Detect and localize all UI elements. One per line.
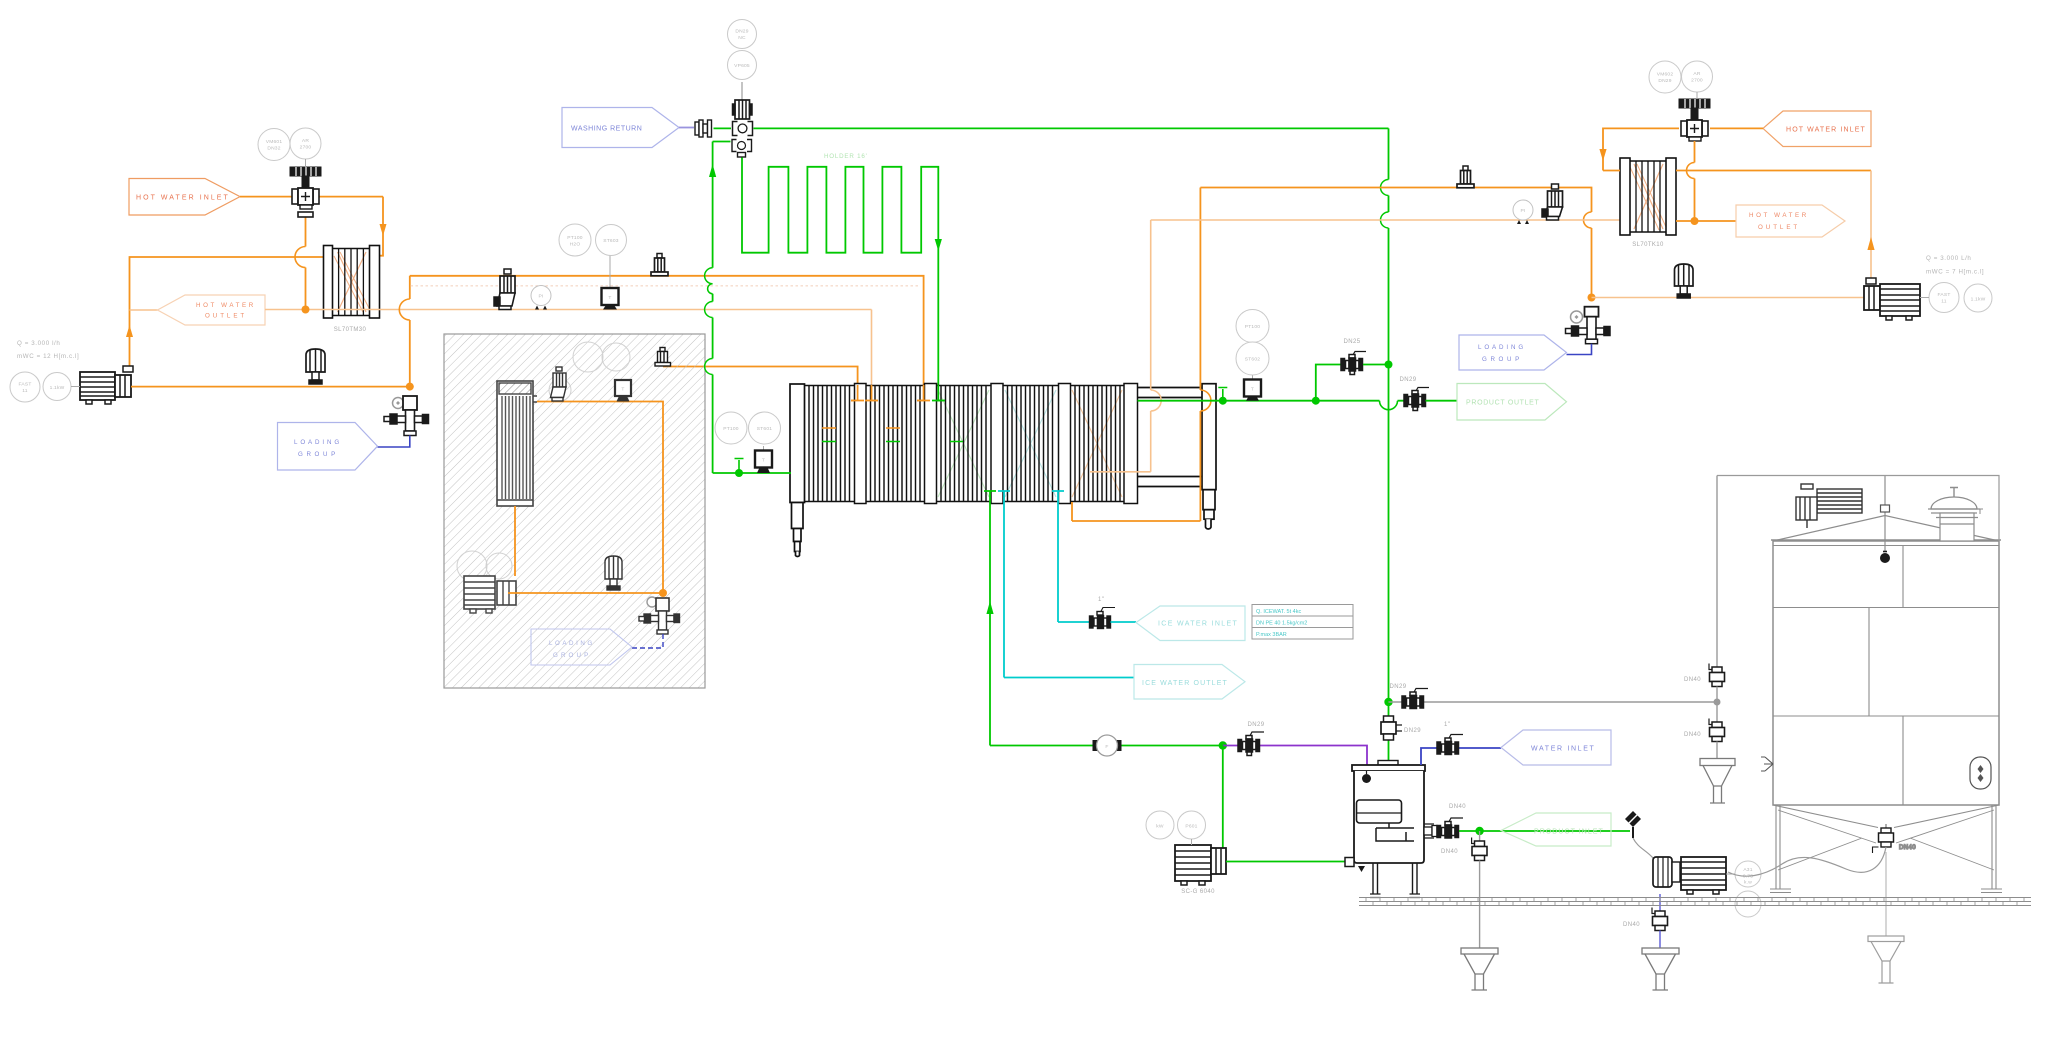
gray overflow line to tank funnels bbox=[1389, 701, 1718, 703]
pale X marks section3 bbox=[938, 390, 989, 497]
wire green washing to cross bbox=[714, 127, 732, 129]
plate pack section2 bbox=[866, 386, 925, 502]
svg-text:T: T bbox=[1251, 387, 1254, 393]
valve loading group in box bbox=[639, 597, 680, 634]
svg-text:PI: PI bbox=[1520, 208, 1525, 214]
T transmitter ST602 bbox=[1244, 375, 1261, 401]
loading circuit header y=366.5 from box bbox=[663, 367, 864, 401]
separator frames bbox=[855, 384, 1138, 504]
wire product down and to flowmeter bbox=[990, 745, 1094, 747]
inline fitting washing bbox=[695, 120, 712, 137]
tank legs bbox=[1373, 863, 1417, 894]
svg-text:HOT WATER: HOT WATER bbox=[1749, 212, 1807, 219]
ice water circuit bbox=[1004, 597, 1353, 699]
svg-text:VP605: VP605 bbox=[734, 63, 750, 69]
valve DN29 purple bbox=[1238, 732, 1264, 756]
flag PRODUCT INLET bbox=[1501, 813, 1611, 846]
svg-text:HOLDER 16': HOLDER 16' bbox=[824, 153, 868, 160]
svg-text:DN29: DN29 bbox=[1400, 377, 1417, 383]
valve VP605 vertical bbox=[733, 82, 753, 119]
svg-text:DN25: DN25 bbox=[1344, 339, 1361, 345]
wire HX1 top-left to left riser bbox=[130, 257, 324, 372]
junction dot product outlet bbox=[1219, 397, 1227, 405]
arrow down holder outlet bbox=[935, 239, 942, 251]
green washing header to right bbox=[754, 127, 1389, 129]
flag HOT WATER OUTLET right bbox=[1736, 205, 1845, 237]
junction dot tank riser bbox=[1384, 698, 1392, 706]
wire valve VM602 branch left and down to HX2 bbox=[1603, 128, 1679, 170]
wire left riser tee to outlet flag bbox=[130, 309, 158, 311]
valve DN25 bbox=[1341, 352, 1366, 375]
pale dotted equalising line y=285.8 bbox=[411, 285, 921, 287]
junction dot right loading valve bbox=[1588, 294, 1596, 302]
svg-text:H2O: H2O bbox=[570, 242, 581, 248]
temperature transmitter T on pale return bbox=[602, 250, 619, 310]
junction dot product inlet bbox=[1475, 827, 1483, 835]
svg-text:PRODUCT OUTLET: PRODUCT OUTLET bbox=[1466, 400, 1540, 407]
instrument circle DN29 NC bbox=[728, 20, 757, 80]
wire purple to balance tank bbox=[1223, 746, 1367, 766]
instrument circle FAST 11 right bbox=[1920, 283, 1992, 313]
plate pack section4 bbox=[1003, 386, 1059, 502]
svg-text:T: T bbox=[762, 458, 765, 464]
svg-text:1.1kW: 1.1kW bbox=[50, 385, 65, 391]
flag PRODUCT OUTLET bbox=[1457, 384, 1567, 421]
svg-text:AR: AR bbox=[302, 138, 309, 144]
wire valve VM601 down to outlet header bbox=[305, 217, 307, 310]
svg-text:PT100: PT100 bbox=[567, 235, 582, 241]
flag ICE WATER INLET bbox=[1136, 606, 1245, 641]
internal connector ticks orange bbox=[822, 427, 900, 429]
flowmeter F bbox=[1093, 735, 1122, 756]
instrument circle A31 bbox=[1726, 861, 1761, 887]
svg-text:11: 11 bbox=[22, 388, 28, 394]
end plate left bbox=[790, 384, 805, 557]
angle seat valve right bbox=[1542, 184, 1563, 220]
tank roof bbox=[1773, 516, 1999, 542]
svg-text:FAST: FAST bbox=[1937, 292, 1950, 298]
flag LOADING GROUP left bbox=[278, 423, 378, 471]
arrow down into HX1 bbox=[380, 224, 387, 236]
svg-text:DN29: DN29 bbox=[1390, 684, 1407, 690]
safety top-hat vent on supply header bbox=[651, 254, 668, 276]
tank legs bbox=[1776, 805, 1996, 889]
wire DN25 bypass up bbox=[1316, 365, 1341, 401]
pale return riser x1150.7 bbox=[1090, 220, 1151, 472]
plate pack section5 bbox=[1071, 386, 1125, 502]
svg-text:LOADING: LOADING bbox=[549, 640, 593, 647]
pale X marks section4 bbox=[1005, 390, 1056, 497]
funnel F1 bbox=[1461, 948, 1498, 990]
pale return header y=309.5 bbox=[265, 309, 872, 311]
instrument circles PT100 / ST602 stacked bbox=[1236, 310, 1269, 376]
svg-text:DN29: DN29 bbox=[735, 29, 748, 35]
wire dot to HX2 bottom port bbox=[1676, 220, 1736, 222]
storage tank bbox=[1717, 476, 2002, 984]
junction dot on main riser bbox=[1385, 361, 1393, 369]
arrow up cold product bbox=[986, 601, 993, 614]
pale return header y=220 bbox=[1151, 219, 1620, 221]
svg-text:DN29: DN29 bbox=[1658, 78, 1671, 84]
svg-text:T: T bbox=[608, 295, 611, 301]
ghost circles at box pump bbox=[457, 551, 487, 581]
carrying bars bottom bbox=[1138, 477, 1203, 487]
name plate oval bbox=[1970, 757, 1991, 789]
pump A31 bbox=[1653, 857, 1726, 894]
svg-text:HOT WATER INLET: HOT WATER INLET bbox=[1786, 127, 1866, 134]
left hot water circuit bbox=[10, 128, 872, 470]
instrument circle VM602 DN29 bbox=[1649, 61, 1713, 99]
junction dot valve drop on pale header bbox=[302, 306, 310, 314]
jump arc right riser over pale line bbox=[1584, 212, 1592, 228]
wire to product outlet flag bbox=[1426, 400, 1458, 402]
right heat exchanger circuit bbox=[1599, 61, 1992, 320]
svg-text:PT100: PT100 bbox=[723, 426, 738, 432]
valve DN40 drain center bbox=[1652, 908, 1668, 931]
valve DN29 product outlet bbox=[1404, 388, 1429, 411]
junction dot DN25 branch bbox=[1312, 397, 1320, 405]
main plate heat exchanger bbox=[713, 188, 1316, 746]
pump in loading box bbox=[464, 576, 516, 613]
instrument circle kW bbox=[1146, 811, 1206, 845]
svg-text:VM602: VM602 bbox=[1657, 72, 1674, 78]
svg-text:ICE WATER OUTLET: ICE WATER OUTLET bbox=[1142, 680, 1228, 687]
wire product riser to lower tee bbox=[713, 141, 731, 143]
check valve diamond bbox=[1625, 811, 1641, 827]
heat exchanger SL70TK10 bbox=[1620, 158, 1676, 235]
instrument circle spare bbox=[1735, 891, 1761, 917]
svg-text:PT100: PT100 bbox=[1245, 324, 1260, 330]
instrument circles PT100 H2O / ST603 bbox=[559, 224, 627, 256]
flag HOT WATER INLET left bbox=[129, 179, 240, 216]
wire green product inlet bbox=[1459, 830, 1630, 832]
lower tee fitting to holder bbox=[732, 140, 752, 158]
product outlet branch bbox=[1218, 128, 1566, 765]
pump FAST11 right bbox=[1864, 278, 1920, 320]
pale return turns down at x871.5 bbox=[865, 310, 878, 401]
tank panel seams bbox=[1773, 546, 1999, 806]
ball valve 1 inch water inlet bbox=[1437, 735, 1463, 755]
wire ice water inlet bbox=[1058, 621, 1089, 623]
svg-text:NC: NC bbox=[738, 35, 746, 41]
cold product line to balance tank bbox=[990, 722, 1367, 895]
svg-text:1": 1" bbox=[1098, 597, 1104, 603]
hose check valve to pump A31 bbox=[1633, 838, 1653, 858]
jump arcs main riser bbox=[1381, 180, 1389, 229]
arrow up product riser bbox=[709, 164, 716, 177]
plate pack section3 bbox=[937, 386, 992, 502]
svg-text:DN40: DN40 bbox=[1684, 732, 1701, 738]
wire purple washing return bbox=[679, 127, 694, 129]
wire pump to tank bottom bbox=[1226, 861, 1345, 863]
svg-text:WATER INLET: WATER INLET bbox=[1531, 746, 1595, 753]
drain line to funnel F3 bbox=[1885, 852, 1887, 936]
wire blue box valve to flag bbox=[632, 634, 663, 648]
sample stub at product outlet bbox=[1218, 388, 1227, 401]
ball valve 1 inch ice water bbox=[1090, 608, 1116, 629]
gauge PI on pale return bbox=[531, 286, 551, 310]
junction dot at loading valve bbox=[406, 383, 414, 391]
arrow up right pump riser bbox=[1867, 237, 1874, 250]
svg-text:DN29: DN29 bbox=[1248, 722, 1265, 728]
valve VM602 with actuator bbox=[1679, 99, 1710, 141]
flag WASHING RETURN bbox=[562, 108, 679, 148]
wire VM602 drop to outlet tee with jump bbox=[1694, 141, 1696, 221]
svg-text:HOT WATER: HOT WATER bbox=[196, 302, 254, 309]
wire ice water outlet bbox=[1004, 677, 1134, 679]
instrument circle FAST 11 bbox=[10, 372, 80, 402]
svg-text:k.w: k.w bbox=[1744, 880, 1752, 886]
funnel F3 bbox=[1868, 936, 1904, 983]
valve DN29 on gray line bbox=[1402, 689, 1428, 709]
instrument circles PT100 / ST601 bbox=[715, 412, 781, 444]
flag LOADING GROUP in box bbox=[531, 629, 632, 665]
product outlet line through frame bbox=[1138, 400, 1316, 402]
svg-text:WASHING RETURN: WASHING RETURN bbox=[571, 126, 643, 133]
product outlet header with jump bbox=[1316, 400, 1404, 402]
tank outlet nozzle cluster bbox=[1424, 824, 1437, 838]
center supply and return headers bbox=[410, 224, 930, 401]
svg-text:PRODUCT INLET: PRODUCT INLET bbox=[1534, 829, 1604, 836]
svg-text:GROUP: GROUP bbox=[553, 652, 589, 659]
flag ICE WATER OUTLET bbox=[1134, 665, 1245, 700]
pump discharge header to loading valve bbox=[131, 386, 410, 388]
wire HX2 top to pump riser bbox=[1676, 170, 1871, 172]
svg-text:P.max 3BAR: P.max 3BAR bbox=[1256, 632, 1287, 638]
angle valve in box bbox=[551, 367, 567, 401]
valve DN40 lower bbox=[1709, 719, 1725, 742]
svg-text:P601: P601 bbox=[1185, 824, 1197, 830]
cold product down lines from pack bbox=[984, 491, 996, 746]
pale X marks section5 bbox=[1072, 390, 1122, 497]
ice water data table bbox=[1252, 605, 1353, 640]
valve DN40 drain left bbox=[1472, 838, 1487, 861]
svg-text:FAST: FAST bbox=[18, 382, 31, 388]
pump FAST11 left bbox=[80, 366, 133, 404]
wire water inlet blue bbox=[1421, 748, 1501, 765]
pale pump return y=297.5 bbox=[1592, 297, 1865, 299]
svg-text:ST603: ST603 bbox=[603, 238, 618, 244]
instrument circle VM601 DN32 bbox=[258, 128, 321, 167]
4-way cross fitting bbox=[733, 122, 753, 136]
svg-text:mWC = 12 H[m.c.l]: mWC = 12 H[m.c.l] bbox=[17, 353, 79, 360]
wire HX1 top feed down with arrow bbox=[380, 197, 384, 256]
level transmitter rod bbox=[1884, 476, 1886, 552]
flag LOADING GROUP right bbox=[1459, 335, 1567, 370]
T transmitter in box bbox=[615, 380, 631, 402]
svg-text:DN40: DN40 bbox=[1899, 845, 1916, 851]
svg-text:mWC = 7 H[m.c.l]: mWC = 7 H[m.c.l] bbox=[1926, 269, 1984, 276]
jump arc pale riser over product line bbox=[1151, 390, 1162, 411]
tank bottom cone bbox=[1773, 805, 1999, 828]
tank shell bbox=[1773, 541, 1999, 805]
svg-text:Q. ICEWAT. 5t 4kc: Q. ICEWAT. 5t 4kc bbox=[1256, 609, 1301, 615]
valve DN40 upper bbox=[1709, 664, 1725, 687]
tick into plate pack x923.6 bbox=[917, 385, 930, 401]
bright supply header y=187.5 bbox=[1200, 188, 1591, 298]
sight glass on pump header bbox=[306, 349, 325, 384]
tank bottom outlet valve DN40 bbox=[1873, 824, 1894, 853]
riser stubs over plate pack bbox=[851, 385, 878, 401]
svg-text:DN40: DN40 bbox=[1623, 922, 1640, 928]
sight glass in box bbox=[605, 556, 622, 590]
wire hot water inlet to valve VM601 bbox=[240, 196, 383, 198]
svg-text:Q = 3.000 L/h: Q = 3.000 L/h bbox=[1926, 255, 1971, 262]
junction dot box valve bbox=[659, 589, 667, 597]
tank left side drain assembly bbox=[1684, 476, 1735, 804]
junction dot at flowmeter line bbox=[1219, 741, 1227, 749]
bright supply riser x409.8 with jump bbox=[409, 276, 411, 387]
wire blue loading valve to flag bbox=[378, 436, 410, 448]
flag HOT WATER OUTLET left bbox=[158, 295, 266, 325]
hose tank outlet to pump A31 bbox=[1728, 847, 1886, 876]
svg-text:VM601: VM601 bbox=[266, 139, 283, 145]
angle seat valve bridging supply and return bbox=[494, 269, 515, 310]
tubular heat exchanger in box bbox=[497, 381, 537, 506]
wire drain to funnel F2 bbox=[1659, 931, 1661, 949]
internal connector ticks green bbox=[822, 441, 963, 443]
junction dot gray line bbox=[1714, 699, 1721, 706]
valve loading group left with gauge bbox=[384, 396, 429, 436]
svg-text:2700: 2700 bbox=[1691, 78, 1703, 84]
wire box pump discharge to loading valve bbox=[508, 592, 663, 594]
svg-text:PI: PI bbox=[538, 294, 543, 300]
pump A31 drain drop bbox=[1659, 894, 1661, 911]
sight glass right return bbox=[1675, 264, 1694, 298]
svg-text:SC-G 6040: SC-G 6040 bbox=[1181, 889, 1215, 895]
svg-text:DN40: DN40 bbox=[1441, 849, 1458, 855]
factory floor bbox=[1359, 898, 2031, 906]
valve VM601 with actuator bbox=[290, 167, 321, 217]
pipe jump on VM601 drop over y257 line bbox=[295, 247, 306, 268]
svg-text:SL70TM30: SL70TM30 bbox=[334, 327, 367, 333]
arrow down right HX feed bbox=[1599, 149, 1606, 161]
svg-text:1.1kW: 1.1kW bbox=[1971, 297, 1986, 303]
gray riser to tank roof line bbox=[1716, 476, 1718, 668]
tank leg braces bbox=[1778, 810, 1994, 870]
level weight bbox=[1880, 553, 1890, 563]
main product riser to tank bbox=[1388, 128, 1390, 765]
heat exchanger SL70TM30 bbox=[324, 246, 380, 319]
svg-text:ST602: ST602 bbox=[1245, 357, 1260, 363]
svg-text:1": 1" bbox=[1444, 722, 1450, 728]
mixer blade on tank wall bbox=[1761, 757, 1773, 771]
svg-text:HOT WATER INLET: HOT WATER INLET bbox=[136, 195, 229, 202]
valve loading group right with gauge bbox=[1566, 307, 1611, 344]
washing return and holder section bbox=[562, 20, 1389, 474]
jump arc on right riser over product line bbox=[1200, 390, 1211, 411]
svg-text:DN32: DN32 bbox=[267, 146, 280, 152]
drain drop from product inlet dot bbox=[1479, 831, 1481, 841]
funnel F4 bbox=[1700, 759, 1735, 804]
wire blue right loading valve to flag bbox=[1567, 344, 1592, 355]
valve DN40 product inlet bbox=[1437, 818, 1463, 838]
svg-text:ICE WATER INLET: ICE WATER INLET bbox=[1158, 621, 1238, 628]
ghost circles in box top bbox=[573, 342, 603, 372]
balance tank group bbox=[1345, 684, 1717, 898]
safety top-hat on right header bbox=[1457, 166, 1474, 188]
svg-text:F: F bbox=[1105, 744, 1108, 750]
right hot water circuit bbox=[1151, 166, 1864, 370]
loading group hatched enclosure bbox=[444, 334, 705, 688]
valve DN29 on riser above tank bbox=[1381, 716, 1402, 740]
sample stub and dot at HX inlet bbox=[735, 469, 743, 477]
svg-text:DN29: DN29 bbox=[1404, 728, 1421, 734]
svg-text:A31: A31 bbox=[1743, 867, 1752, 873]
flag WATER INLET bbox=[1501, 730, 1611, 765]
air vent on box riser bbox=[655, 348, 671, 367]
arrow up on left riser bbox=[126, 325, 133, 337]
svg-text:ST601: ST601 bbox=[757, 426, 772, 432]
wire box top header y=401.5 bbox=[537, 402, 663, 594]
wire tubular HX bottom to box pump bbox=[514, 506, 516, 576]
svg-text:DN PE 40 1.5kg/cm2: DN PE 40 1.5kg/cm2 bbox=[1256, 621, 1307, 627]
carrying bars top bbox=[1138, 388, 1203, 398]
svg-text:2700: 2700 bbox=[300, 145, 312, 151]
product inlet and storage tank area bbox=[1424, 804, 1761, 990]
ice water riser A bbox=[998, 491, 1010, 678]
junction dot right HX outlet bbox=[1691, 217, 1699, 225]
plate pack section1 bbox=[805, 386, 855, 502]
hot side U-turn under HX bbox=[1072, 188, 1200, 522]
svg-text:AR: AR bbox=[1693, 71, 1700, 77]
wire flag to valve VM602 bbox=[1710, 127, 1763, 129]
gauge PI right bbox=[1513, 200, 1533, 224]
svg-text:kW: kW bbox=[1156, 824, 1164, 830]
wire product branch down to pump P601 bbox=[1222, 746, 1224, 849]
svg-text:SL70TK10: SL70TK10 bbox=[1632, 242, 1664, 248]
svg-text:11: 11 bbox=[1941, 299, 1947, 305]
funnel F2 bbox=[1642, 948, 1679, 990]
flag HOT WATER INLET right bbox=[1763, 111, 1871, 147]
end plate right bbox=[1202, 384, 1216, 529]
wire DN25 to main riser bbox=[1363, 364, 1389, 366]
svg-text:DN40: DN40 bbox=[1449, 804, 1466, 810]
product riser x712.6 with jumps bbox=[712, 142, 714, 474]
pump SC-G 6040 bbox=[1175, 845, 1226, 885]
ice water riser B bbox=[1052, 491, 1064, 622]
holder 16 serpentine bbox=[742, 158, 945, 401]
svg-text:DN40: DN40 bbox=[1684, 677, 1701, 683]
product inlet green left into end plate bbox=[713, 472, 791, 474]
agitator drive on roof bbox=[1796, 484, 1862, 528]
manhole dome on roof bbox=[1928, 488, 1983, 542]
gray service line over tank bbox=[1717, 476, 1999, 542]
svg-text:T: T bbox=[621, 387, 624, 393]
bright supply header y=275.8 bbox=[410, 276, 924, 385]
wire drain to funnel F1 bbox=[1479, 861, 1481, 949]
T transmitter ST601 bbox=[755, 446, 772, 473]
svg-text:Q = 3.000 l/h: Q = 3.000 l/h bbox=[17, 340, 60, 347]
balance tank body bbox=[1345, 761, 1425, 873]
